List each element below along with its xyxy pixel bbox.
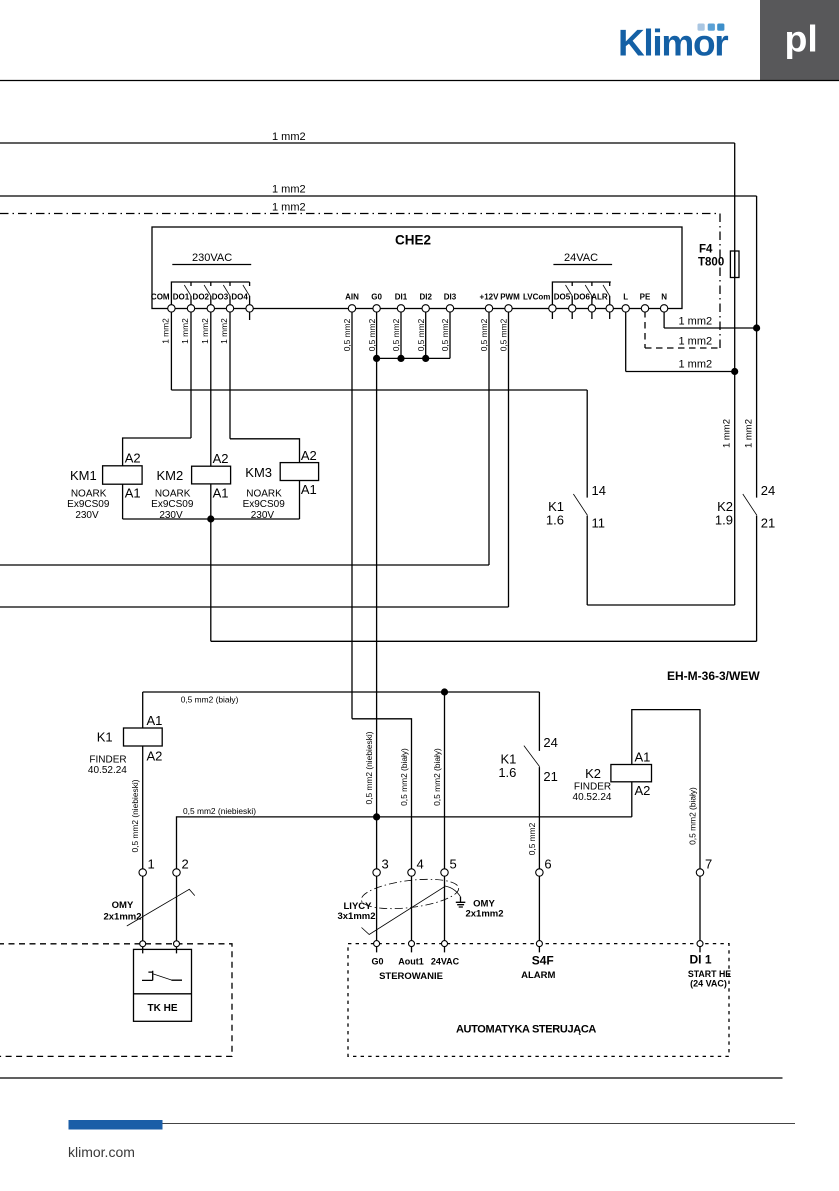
svg-text:Ex9CS09: Ex9CS09 <box>67 499 110 510</box>
svg-text:21: 21 <box>543 769 557 784</box>
wire KM2 A1 down <box>210 484 212 519</box>
node N junction <box>753 324 760 331</box>
svg-text:2: 2 <box>182 857 189 872</box>
terminal 1 <box>139 869 146 876</box>
svg-text:1: 1 <box>148 857 155 872</box>
svg-text:A1: A1 <box>635 750 651 765</box>
wire PWM to left edge <box>0 606 509 608</box>
svg-text:1.6: 1.6 <box>546 513 564 528</box>
wire PWM down <box>508 312 510 607</box>
wire N feed horizontal <box>0 195 757 197</box>
wire stubs into automatyka box <box>377 947 700 953</box>
contact blade ALR <box>603 285 610 296</box>
header rule <box>0 80 839 82</box>
wire +12V to left edge <box>0 564 489 566</box>
svg-text:A2: A2 <box>635 783 651 798</box>
boundary terminal wire4 <box>409 941 415 947</box>
svg-text:1 mm2: 1 mm2 <box>679 359 713 371</box>
wire L stub from terminal <box>625 310 627 372</box>
contact K1 bottom <box>586 516 588 605</box>
contact blade DO1 <box>184 285 191 296</box>
svg-text:0,5 mm2: 0,5 mm2 <box>367 318 377 351</box>
svg-text:A2: A2 <box>147 749 163 764</box>
svg-text:NOARK: NOARK <box>71 488 107 499</box>
svg-text:A1: A1 <box>147 713 163 728</box>
node G0 junction <box>373 355 380 362</box>
svg-text:L: L <box>623 293 628 302</box>
svg-text:NOARK: NOARK <box>155 488 191 499</box>
wire DO3 down <box>229 312 231 439</box>
terminal 3 <box>373 869 380 876</box>
node L junction <box>731 368 738 375</box>
svg-text:230VAC: 230VAC <box>192 252 232 264</box>
wire K2 coil top <box>632 710 700 869</box>
svg-text:G0: G0 <box>371 957 383 967</box>
svg-text:0,5 mm2 (biały): 0,5 mm2 (biały) <box>399 748 409 806</box>
svg-text:24VAC: 24VAC <box>564 252 598 264</box>
svg-text:1 mm2: 1 mm2 <box>219 318 229 344</box>
svg-text:DO5: DO5 <box>554 293 571 302</box>
terminal 2 <box>173 869 180 876</box>
svg-text:11: 11 <box>592 516 606 531</box>
svg-text:TK HE: TK HE <box>148 1003 178 1014</box>
frame bottom rule <box>0 1077 783 1079</box>
svg-text:1 mm2: 1 mm2 <box>679 316 713 328</box>
footer rule <box>69 1123 796 1125</box>
contactor KM3 coil <box>280 463 318 481</box>
wire L feed horizontal <box>0 142 735 144</box>
svg-text:0,5 mm2 (biały): 0,5 mm2 (biały) <box>432 748 442 806</box>
wire L branch horizontal <box>626 371 735 373</box>
wire +12V down <box>488 312 490 565</box>
svg-text:230V: 230V <box>75 510 99 521</box>
wire terminal4 down <box>411 876 413 940</box>
svg-text:0,5 mm2 (niebieski): 0,5 mm2 (niebieski) <box>130 779 140 852</box>
wire junction to terminal 5 <box>444 692 446 869</box>
wire DI1 down <box>400 312 402 359</box>
svg-text:S4F: S4F <box>532 954 554 968</box>
node DI2 junction <box>422 355 429 362</box>
svg-text:OMY: OMY <box>112 900 134 911</box>
footer blue bar <box>69 1120 163 1130</box>
svg-text:G0: G0 <box>371 293 382 302</box>
svg-text:Aout1: Aout1 <box>398 957 424 967</box>
svg-text:N: N <box>661 293 667 302</box>
svg-text:21: 21 <box>761 516 775 531</box>
wire N branch horizontal <box>664 327 757 329</box>
cable OMY 2x1mm2 marker <box>127 889 195 926</box>
wire terminal6 down <box>538 876 540 940</box>
terminal stubs DO1-DO4 <box>191 296 250 305</box>
svg-text:ALR: ALR <box>591 293 608 302</box>
wire KM3 A1 down <box>299 481 301 520</box>
wire K1 coil A2 down <box>142 746 144 869</box>
wire N stub from terminal <box>663 310 665 328</box>
svg-text:0,5 mm2 (biały): 0,5 mm2 (biały) <box>181 695 239 705</box>
contactor KM2 coil <box>192 466 231 484</box>
contact blade DO4 <box>243 285 250 296</box>
wire DO1 to KM1 coil <box>123 438 191 466</box>
thermostat TK HE box <box>134 949 192 1021</box>
svg-text:PWM: PWM <box>500 293 520 302</box>
svg-text:A1: A1 <box>125 485 141 500</box>
svg-text:A2: A2 <box>213 451 229 466</box>
svg-text:klimor.com: klimor.com <box>68 1144 135 1160</box>
contact K2 bottom <box>756 516 758 642</box>
svg-text:PE: PE <box>640 293 651 302</box>
svg-text:KM1: KM1 <box>70 468 97 483</box>
svg-text:KM3: KM3 <box>245 465 272 480</box>
dashed enclosure TK HE <box>0 944 232 1057</box>
svg-text:3: 3 <box>382 857 389 872</box>
wire DI2 down <box>425 312 427 359</box>
wire DO2 down <box>210 312 212 466</box>
contact K1 1.6 lower top <box>538 692 540 751</box>
thermostat stubs <box>143 947 177 953</box>
svg-text:DO2: DO2 <box>193 293 210 302</box>
svg-text:2x1mm2: 2x1mm2 <box>465 909 503 920</box>
terminal 4 <box>408 869 415 876</box>
terminal 7 <box>696 869 703 876</box>
svg-text:24: 24 <box>761 483 775 498</box>
svg-text:A2: A2 <box>125 451 141 466</box>
wire A1 rail <box>123 518 300 520</box>
terminal 5 <box>441 869 448 876</box>
svg-text:1 mm2: 1 mm2 <box>679 336 713 348</box>
node terminal5 junction <box>441 688 448 695</box>
wire COM down <box>170 312 172 390</box>
wire G0 down <box>376 312 378 869</box>
wire L feed vertical <box>734 143 736 605</box>
svg-text:DI 1: DI 1 <box>689 953 711 967</box>
wire PE dash-dot vertical <box>719 214 721 349</box>
svg-text:KM2: KM2 <box>157 468 184 483</box>
wire terminal2 down <box>176 876 178 940</box>
svg-text:+12V: +12V <box>480 293 500 302</box>
svg-text:A1: A1 <box>213 485 229 500</box>
svg-text:6: 6 <box>544 857 551 872</box>
boundary terminal wire6 <box>536 941 542 947</box>
node A1 rail junction <box>207 515 214 522</box>
wire AIN jog to terminal 4 <box>352 719 412 869</box>
boundary terminal wire7 <box>697 941 703 947</box>
relay bus bracket 230VAC <box>171 282 249 305</box>
wire terminal5 down <box>444 876 446 940</box>
contact K1 1.6 top <box>586 390 588 498</box>
boundary terminal wire1 <box>140 941 146 947</box>
wire K2 bottom to KM coils <box>211 640 757 642</box>
svg-text:T800: T800 <box>698 257 724 269</box>
svg-text:K2: K2 <box>585 766 601 781</box>
svg-text:NOARK: NOARK <box>246 488 282 499</box>
svg-text:ALARM: ALARM <box>521 970 555 981</box>
svg-text:0,5 mm2: 0,5 mm2 <box>499 318 509 351</box>
cable LIYCY marker <box>362 886 446 934</box>
ground shield OMY <box>445 886 461 897</box>
wire niebieski horizontal <box>177 817 632 869</box>
svg-text:(24 VAC): (24 VAC) <box>690 979 727 989</box>
svg-text:AUTOMATYKA STERUJĄCA: AUTOMATYKA STERUJĄCA <box>456 1024 596 1036</box>
svg-text:24: 24 <box>543 735 557 750</box>
wire PE dashed vertical from terminal <box>644 311 646 348</box>
stubs LVCom DO5 DO6 ALR below <box>552 312 609 319</box>
wire K1 bottom to L line <box>587 604 735 606</box>
svg-text:0,5 mm2 (biały): 0,5 mm2 (biały) <box>688 787 698 845</box>
node DI1 junction <box>397 355 404 362</box>
contact blade DO5 <box>566 285 573 296</box>
svg-text:4: 4 <box>417 857 424 872</box>
svg-text:40.52.24: 40.52.24 <box>88 765 127 776</box>
svg-text:0,5 mm2: 0,5 mm2 <box>391 318 401 351</box>
svg-text:DO3: DO3 <box>212 293 229 302</box>
wire PE dashed horizontal <box>645 347 720 349</box>
svg-text:START HE: START HE <box>688 969 731 979</box>
svg-text:STEROWANIE: STEROWANIE <box>379 971 443 982</box>
svg-text:0,5 mm2: 0,5 mm2 <box>440 318 450 351</box>
cable LIYCY ellipse <box>360 875 461 914</box>
relay K1 coil FINDER <box>124 728 163 746</box>
svg-text:1 mm2: 1 mm2 <box>744 419 755 448</box>
pl language box <box>760 0 839 80</box>
contact K1 blade <box>573 494 587 515</box>
svg-text:0,5 mm2: 0,5 mm2 <box>342 318 352 351</box>
wire DO1 down <box>190 312 192 438</box>
contact K2 1.9 blade <box>743 494 757 515</box>
fuse F4 T800 <box>730 251 739 278</box>
dashed enclosure AUTOMATYKA <box>348 944 729 1057</box>
svg-text:CHE2: CHE2 <box>395 233 431 248</box>
contact blade DO3 <box>223 285 230 296</box>
svg-text:0,5 mm2: 0,5 mm2 <box>527 822 537 855</box>
svg-text:14: 14 <box>592 483 606 498</box>
logo Klimor <box>618 23 728 64</box>
wire KM1 A1 down <box>122 484 124 519</box>
wire COM to K1 contact <box>171 389 587 391</box>
terminal 6 <box>536 869 543 876</box>
svg-text:3x1mm2: 3x1mm2 <box>337 911 375 922</box>
node G0 niebieski junction <box>373 813 380 820</box>
svg-text:LVCom: LVCom <box>523 293 550 302</box>
wire DO3 to KM3 coil <box>230 439 300 463</box>
wire K1 coil A1 <box>142 692 144 728</box>
wire K2 coil A2 down <box>631 782 633 817</box>
wire N feed vertical upper <box>756 196 758 498</box>
boundary terminal wire5 <box>442 941 448 947</box>
svg-text:DI1: DI1 <box>395 293 408 302</box>
svg-text:5: 5 <box>450 857 457 872</box>
wire terminal1 down <box>142 876 144 940</box>
terminal stubs DO5 DO6 ALR <box>572 296 610 305</box>
svg-text:0,5 mm2 (niebieski): 0,5 mm2 (niebieski) <box>364 731 374 804</box>
wire terminal7 down <box>699 876 701 940</box>
wire coil return down <box>210 519 212 641</box>
svg-text:2x1mm2: 2x1mm2 <box>103 912 141 923</box>
wire AIN down <box>351 312 353 719</box>
svg-text:Ex9CS09: Ex9CS09 <box>151 499 194 510</box>
contact K1 lower bottom <box>538 767 540 869</box>
svg-text:A1: A1 <box>301 482 317 497</box>
svg-text:F4: F4 <box>699 244 713 256</box>
svg-text:1 mm2: 1 mm2 <box>200 318 210 344</box>
svg-text:1 mm2: 1 mm2 <box>160 318 170 344</box>
contact blade DO6 <box>585 285 592 296</box>
svg-text:1.9: 1.9 <box>715 513 733 528</box>
wire jumper G0-DI3 <box>377 357 450 359</box>
relay K2 coil FINDER <box>611 765 652 782</box>
svg-text:DI3: DI3 <box>444 293 457 302</box>
svg-text:0,5 mm2 (niebieski): 0,5 mm2 (niebieski) <box>183 806 256 816</box>
relay bus bracket 24VAC <box>552 282 610 305</box>
svg-text:DI2: DI2 <box>419 293 432 302</box>
svg-text:1.6: 1.6 <box>498 765 516 780</box>
svg-text:0,5 mm2: 0,5 mm2 <box>479 318 489 351</box>
svg-text:EH-M-36-3/WEW: EH-M-36-3/WEW <box>667 669 760 683</box>
wire DO4 stub <box>249 312 251 320</box>
contact K1 lower blade <box>524 746 540 767</box>
svg-text:K1: K1 <box>97 730 113 745</box>
svg-text:1 mm2: 1 mm2 <box>272 184 306 196</box>
FOOTER <box>0 1078 795 1160</box>
svg-text:1 mm2: 1 mm2 <box>272 202 306 214</box>
contact blade DO2 <box>204 285 211 296</box>
contactor KM1 coil <box>103 466 143 484</box>
svg-text:DO4: DO4 <box>231 293 248 302</box>
svg-text:1 mm2: 1 mm2 <box>180 318 190 344</box>
controller CHE2 box <box>152 227 682 309</box>
wire 24VAC bialy horizontal <box>143 691 540 693</box>
svg-text:Ex9CS09: Ex9CS09 <box>243 499 286 510</box>
svg-text:AIN: AIN <box>345 293 359 302</box>
svg-text:pl: pl <box>785 18 818 60</box>
wire DI3 down <box>449 312 451 359</box>
thermostat contact symbol <box>142 971 182 981</box>
wire PE feed dash-dot horizontal <box>0 213 720 215</box>
svg-text:COM: COM <box>151 293 170 302</box>
boundary terminal wire2 <box>174 941 180 947</box>
wire terminal3 down <box>376 876 378 940</box>
svg-text:DO6: DO6 <box>573 293 590 302</box>
svg-text:A2: A2 <box>301 448 317 463</box>
svg-text:7: 7 <box>705 857 712 872</box>
svg-text:24VAC: 24VAC <box>431 957 460 967</box>
svg-text:1 mm2: 1 mm2 <box>722 419 733 448</box>
svg-text:DO1: DO1 <box>173 293 190 302</box>
svg-text:1 mm2: 1 mm2 <box>272 131 306 143</box>
boundary terminal wire3 <box>374 941 380 947</box>
terminal circles CHE2 <box>168 305 668 312</box>
svg-text:40.52.24: 40.52.24 <box>573 792 612 803</box>
svg-text:0,5 mm2: 0,5 mm2 <box>416 318 426 351</box>
